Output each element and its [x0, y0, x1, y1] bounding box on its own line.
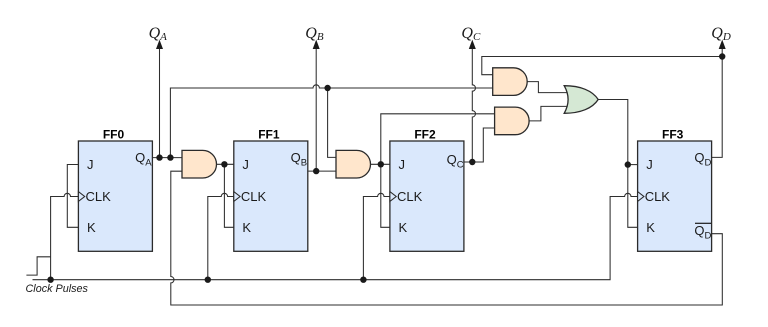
- svg-text:J: J: [87, 157, 94, 172]
- junction clock-FF0: [47, 277, 53, 283]
- svg-text:Q: Q: [135, 150, 145, 165]
- svg-text:J: J: [242, 157, 249, 172]
- wire QB arrow stem: [315, 49, 317, 171]
- wire AND1 output to FF1 J: [217, 163, 234, 165]
- wire QbarD feedback to AND1: [171, 171, 723, 305]
- wire FF0 CLK riser: [51, 193, 79, 279]
- svg-text:D: D: [705, 231, 712, 242]
- svg-text:FF3: FF3: [662, 128, 684, 142]
- wire AND3 output to OR: [527, 82, 567, 93]
- wire AND4 output to OR: [529, 106, 567, 121]
- junction clock-FF1: [205, 277, 211, 283]
- junction QB arrow: [313, 168, 319, 174]
- junction QA line to AND2: [324, 85, 330, 91]
- svg-text:J: J: [646, 157, 653, 172]
- wire FF0 J-K tie: [67, 165, 78, 228]
- wire QA branch to AND2 top: [328, 88, 336, 157]
- svg-text:A: A: [145, 158, 152, 169]
- wire clock bus to FF3 CLK: [33, 193, 638, 279]
- wire QD line to AND3 top: [482, 57, 722, 75]
- AND gate U4 (QA.QB.QC): [495, 107, 529, 135]
- arrowhead QB: [313, 40, 320, 49]
- junction QD line: [719, 53, 725, 59]
- flip-flop FF1: [234, 128, 308, 252]
- arrowhead QA: [156, 40, 163, 49]
- wire QB output to AND2: [308, 170, 336, 172]
- svg-text:C: C: [457, 160, 464, 171]
- svg-text:QA: QA: [149, 25, 168, 43]
- svg-text:J: J: [399, 157, 406, 172]
- junction AND1 out: [221, 161, 227, 167]
- svg-text:Q: Q: [694, 223, 704, 238]
- wire QA output to AND1: [152, 157, 182, 159]
- wire OR output to FF3 J and K tie: [598, 100, 638, 228]
- svg-text:FF1: FF1: [258, 128, 280, 142]
- junction QA tap: [167, 154, 173, 160]
- wire QA arrow stem: [159, 49, 161, 158]
- wire QC output to AND4: [464, 128, 494, 162]
- wire QD output and arrow stem: [711, 49, 722, 158]
- arrowhead QD: [719, 40, 726, 49]
- junction QC arrow: [469, 159, 475, 165]
- svg-text:CLK: CLK: [397, 189, 423, 204]
- svg-text:K: K: [646, 220, 655, 235]
- clock source waveform: [26, 257, 50, 275]
- svg-text:K: K: [87, 220, 96, 235]
- flip-flop FF0: [78, 128, 152, 252]
- junction QA arrow: [156, 154, 162, 160]
- svg-text:CLK: CLK: [241, 189, 267, 204]
- svg-text:B: B: [301, 158, 307, 169]
- svg-text:CLK: CLK: [86, 189, 112, 204]
- wire QC arrow stem: [472, 49, 475, 162]
- svg-text:FF0: FF0: [103, 128, 125, 142]
- svg-text:QD: QD: [711, 25, 731, 43]
- svg-text:K: K: [399, 220, 408, 235]
- svg-text:Clock Pulses: Clock Pulses: [26, 283, 89, 295]
- svg-text:Q: Q: [447, 152, 457, 167]
- svg-text:D: D: [705, 158, 712, 169]
- wire FF3 J stub: [628, 164, 638, 166]
- svg-text:CLK: CLK: [645, 189, 671, 204]
- svg-text:QB: QB: [305, 25, 324, 43]
- wire AND2 output to FF2 J: [371, 163, 390, 165]
- wire FF1 CLK riser: [208, 193, 234, 279]
- flip-flop FF2: [390, 128, 464, 252]
- wire FF2 CLK riser: [363, 193, 390, 279]
- wire FF1 J-K tie: [224, 164, 233, 227]
- svg-text:QC: QC: [461, 25, 481, 43]
- AND gate U3 (QA.QD): [493, 68, 528, 96]
- junction FF3 J: [625, 161, 631, 167]
- svg-text:FF2: FF2: [414, 128, 436, 142]
- AND gate U1 (QA.QbarD): [182, 150, 217, 178]
- junction AND2 out: [378, 161, 384, 167]
- svg-text:Q: Q: [291, 150, 301, 165]
- wire AND2 out tie and feed to AND4: [381, 114, 495, 228]
- flip-flop FF3: [638, 128, 712, 252]
- arrowhead QC: [469, 40, 476, 49]
- svg-text:K: K: [242, 220, 251, 235]
- AND gate U2 (QA.QB): [336, 150, 371, 178]
- wire QA tap to AND3: [170, 85, 492, 158]
- svg-text:Q: Q: [694, 150, 704, 165]
- OR gate U5: [564, 86, 598, 114]
- junction clock-FF2: [360, 277, 366, 283]
